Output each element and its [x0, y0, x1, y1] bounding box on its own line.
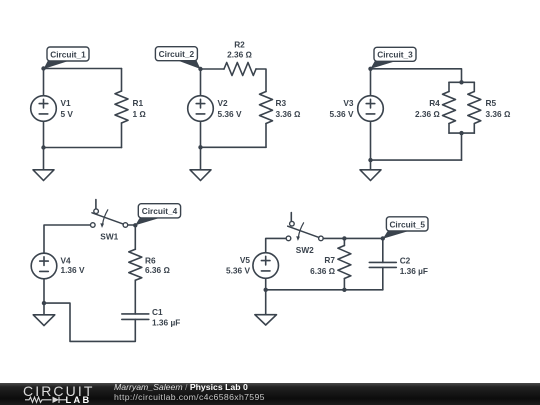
- svg-text:V2: V2: [218, 98, 229, 108]
- node D3 bottom junction: [459, 131, 463, 135]
- node A3: [368, 67, 372, 71]
- node C3 top junction: [459, 80, 463, 84]
- wire: [44, 225, 91, 253]
- wire top circuit 1: [44, 68, 122, 70]
- node A2: [198, 67, 202, 71]
- node A4: [133, 223, 137, 227]
- node D5: [264, 288, 268, 292]
- resistor R4: [443, 92, 456, 124]
- footer bar: [0, 383, 540, 405]
- svg-text:SW2: SW2: [296, 245, 314, 255]
- label R6 6.36 Ohm: [145, 255, 170, 275]
- wire bottom circuit 2: [201, 146, 267, 148]
- wire: [448, 82, 450, 91]
- footer line 1: [114, 383, 248, 392]
- svg-text:2.36 Ω: 2.36 Ω: [227, 49, 252, 59]
- svg-text:V4: V4: [61, 255, 72, 265]
- node flag Circuit_5: [383, 217, 428, 239]
- resistor R5: [468, 92, 481, 124]
- wire: [43, 279, 45, 303]
- wire: [323, 237, 383, 239]
- wire: [370, 121, 372, 160]
- resistor R1: [115, 91, 128, 123]
- svg-text:Circuit_1: Circuit_1: [50, 49, 86, 59]
- wire bottom circuit 3: [371, 159, 462, 161]
- wire: [382, 267, 384, 289]
- voltage source V5: [253, 253, 279, 279]
- wire: [382, 238, 384, 262]
- svg-text:V5: V5: [240, 255, 251, 265]
- svg-text:R7: R7: [324, 255, 335, 265]
- svg-text:5.36 V: 5.36 V: [330, 109, 354, 119]
- switch SW1: [91, 200, 128, 228]
- voltage source V1: [31, 96, 57, 122]
- capacitor C2: [369, 262, 396, 267]
- svg-text:3.36 Ω: 3.36 Ω: [276, 109, 301, 119]
- ground circuit 3: [360, 160, 381, 180]
- wire: [266, 238, 287, 252]
- svg-text:C1: C1: [152, 307, 163, 317]
- wire: [448, 124, 450, 134]
- svg-text:5.36 V: 5.36 V: [218, 109, 242, 119]
- wire: [370, 69, 372, 96]
- wire parallel top: [449, 81, 474, 83]
- svg-text:5 V: 5 V: [61, 109, 74, 119]
- svg-text:Circuit_4: Circuit_4: [142, 206, 178, 216]
- label R2 2.36 Ohm: [227, 39, 252, 59]
- node C5: [381, 236, 385, 240]
- label R5 3.36 Ohm: [486, 98, 511, 119]
- wire: [128, 224, 136, 226]
- node A1: [41, 66, 45, 70]
- wire: [256, 69, 266, 92]
- svg-text:1 Ω: 1 Ω: [133, 109, 147, 119]
- label V4 1.36 V: [61, 255, 85, 275]
- wire bottom circuit 5: [266, 289, 383, 291]
- label C2 1.36 uF: [400, 256, 428, 277]
- ground circuit 5: [255, 290, 277, 325]
- voltage source V3: [358, 96, 384, 122]
- capacitor C1: [122, 314, 149, 320]
- svg-text:1.36 µF: 1.36 µF: [152, 317, 180, 327]
- wire parallel bottom: [449, 132, 474, 134]
- wire top circuit 3: [371, 69, 462, 83]
- resistor R3: [260, 92, 273, 124]
- wire: [200, 69, 202, 96]
- wire: [121, 123, 123, 148]
- ground circuit 1: [33, 148, 54, 181]
- wire: [134, 280, 136, 314]
- label V1 5 V: [61, 98, 74, 119]
- wire: [473, 124, 475, 134]
- svg-text:R5: R5: [486, 98, 497, 108]
- wire bottom circuit 1: [44, 147, 122, 149]
- voltage source V4: [31, 253, 57, 279]
- CircuitLab logo: [0, 383, 100, 405]
- svg-text:R1: R1: [133, 98, 144, 108]
- wire: [43, 121, 45, 147]
- node B4: [42, 301, 46, 305]
- wire: [265, 124, 267, 148]
- wire: [201, 68, 225, 70]
- wire: [134, 225, 136, 249]
- wire: [44, 303, 135, 341]
- svg-text:Circuit_5: Circuit_5: [389, 219, 425, 229]
- svg-text:6.36 Ω: 6.36 Ω: [145, 265, 170, 275]
- label R3 3.36 Ohm: [276, 98, 301, 119]
- resistor R2: [224, 63, 256, 76]
- switch SW2: [286, 213, 323, 241]
- svg-text:C2: C2: [400, 256, 411, 266]
- wire: [200, 121, 202, 147]
- wire: [343, 279, 345, 290]
- resistor R6: [129, 249, 142, 280]
- svg-text:Circuit_3: Circuit_3: [377, 50, 413, 60]
- label R4 2.36 Ohm: [415, 98, 440, 119]
- svg-text:1.36 V: 1.36 V: [61, 265, 85, 275]
- node flag Circuit_4: [135, 204, 180, 226]
- label V5 5.36 V: [226, 255, 250, 276]
- node B2: [198, 145, 202, 149]
- svg-text:5.36 V: 5.36 V: [226, 265, 250, 275]
- node A5: [342, 236, 346, 240]
- svg-text:V1: V1: [61, 98, 72, 108]
- wire: [473, 82, 475, 91]
- resistor R7: [338, 246, 351, 279]
- node flag Circuit_2: [155, 47, 200, 69]
- svg-text:2.36 Ω: 2.36 Ω: [415, 109, 440, 119]
- label C1 1.36 uF: [152, 307, 180, 327]
- label R1 1 Ohm: [133, 98, 147, 119]
- wire: [461, 133, 463, 160]
- node B1: [41, 145, 45, 149]
- svg-text:6.36 Ω: 6.36 Ω: [310, 266, 335, 276]
- ground circuit 4: [33, 303, 55, 326]
- label R7 6.36 Ohm: [310, 255, 335, 276]
- svg-text:1.36 µF: 1.36 µF: [400, 266, 428, 276]
- svg-text:R6: R6: [145, 255, 156, 265]
- node B5: [342, 288, 346, 292]
- wire: [43, 69, 45, 96]
- svg-text:3.36 Ω: 3.36 Ω: [486, 109, 511, 119]
- node B3: [368, 158, 372, 162]
- svg-text:R2: R2: [234, 39, 245, 49]
- svg-text:R3: R3: [276, 98, 287, 108]
- wire: [343, 238, 345, 245]
- wire: [121, 69, 123, 92]
- svg-text:Circuit_2: Circuit_2: [159, 49, 195, 59]
- svg-text:LAB: LAB: [66, 395, 92, 405]
- node flag Circuit_3: [371, 47, 417, 69]
- footer line 2: [114, 393, 265, 402]
- label V2 5.36 V: [218, 98, 242, 119]
- svg-text:R4: R4: [429, 98, 440, 108]
- wire: [265, 278, 267, 290]
- voltage source V2: [188, 96, 214, 122]
- svg-text:SW1: SW1: [100, 232, 118, 242]
- label V3 5.36 V: [330, 98, 354, 119]
- node flag Circuit_1: [44, 47, 90, 69]
- svg-text:V3: V3: [343, 98, 354, 108]
- ground circuit 2: [190, 147, 211, 180]
